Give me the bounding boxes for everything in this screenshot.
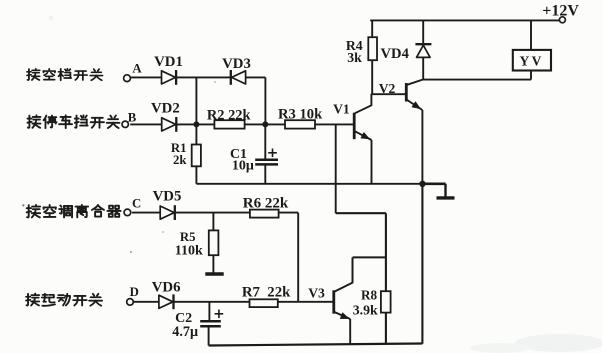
svg-text:110k: 110k bbox=[175, 244, 203, 259]
svg-text:R6 22k: R6 22k bbox=[243, 196, 289, 212]
svg-text:D: D bbox=[130, 285, 139, 299]
svg-text:R5: R5 bbox=[180, 230, 196, 244]
svg-text:V3: V3 bbox=[308, 285, 325, 300]
svg-text:VD1: VD1 bbox=[154, 54, 183, 70]
svg-text:A: A bbox=[132, 61, 142, 75]
svg-text:+12V: +12V bbox=[542, 2, 579, 19]
svg-text:C: C bbox=[132, 197, 141, 211]
svg-text:R3 10k: R3 10k bbox=[278, 107, 323, 123]
svg-text:2k: 2k bbox=[173, 153, 187, 167]
svg-text:R2 22k: R2 22k bbox=[207, 107, 251, 123]
svg-text:V1: V1 bbox=[333, 101, 350, 116]
svg-text:VD4: VD4 bbox=[381, 46, 410, 62]
svg-text:VD6: VD6 bbox=[152, 279, 181, 295]
svg-text:3k: 3k bbox=[347, 50, 362, 65]
svg-text:YV: YV bbox=[519, 54, 544, 69]
svg-text:10μ: 10μ bbox=[232, 159, 254, 174]
svg-text:4.7μ: 4.7μ bbox=[172, 324, 198, 340]
svg-text:B: B bbox=[128, 110, 137, 124]
svg-text:VD5: VD5 bbox=[153, 188, 182, 204]
svg-text:R8: R8 bbox=[361, 288, 378, 303]
svg-text:R7 22k: R7 22k bbox=[242, 285, 291, 301]
svg-text:VD2: VD2 bbox=[151, 101, 180, 117]
svg-text:VD3: VD3 bbox=[222, 56, 251, 72]
svg-text:V2: V2 bbox=[379, 81, 396, 96]
svg-text:3.9k: 3.9k bbox=[353, 303, 378, 318]
